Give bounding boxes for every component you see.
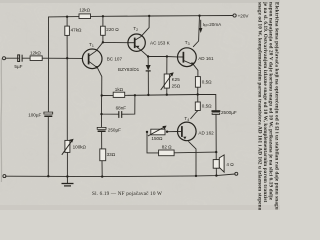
resistor R 220 [101,26,106,35]
terminal input top [3,57,6,60]
svg-text:250µF: 250µF [108,128,121,133]
node 68nF left [100,113,102,115]
wire top rail [49,16,234,17]
svg-text:100µF: 100µF [28,112,41,117]
svg-text:0,5Ω: 0,5Ω [202,104,212,109]
wire output node to 2500uF [198,95,216,111]
transistor T2 AC153K [128,34,145,51]
resistor R 82 [159,150,175,156]
wire T1 emitter lead [89,61,102,95]
margin text rotated [256,1,279,211]
wire R 12k to base node [42,57,82,59]
capacitor C 5uF input [18,55,22,62]
wire T2 emitter node across to T3 base [148,56,183,59]
paper background [0,0,280,210]
svg-text:K25: K25 [172,77,181,82]
svg-text:Sl. 6.19 — NF pojačavač 10 W: Sl. 6.19 — NF pojačavač 10 W [92,191,162,197]
capacitor C 2500uF electrolytic [212,110,221,114]
svg-text:AD 162: AD 162 [198,131,214,136]
node rail-T2 [148,15,150,17]
speaker 4R [213,155,224,172]
wire T3 collector from rail [193,16,199,47]
resistor R 0.5 upper [195,77,200,88]
wire 250uF column down to 33R and bottom rail [101,114,103,127]
node trimmer50 right [166,131,168,133]
wire 82R right to speaker node [174,151,216,154]
wire T2 emitter lead to diode node [135,45,148,56]
svg-text:AC 153 K: AC 153 K [150,41,171,46]
wire 220R column [102,16,104,26]
node speaker rail [215,174,217,176]
svg-text:220 Ω: 220 Ω [106,27,119,32]
wire left column (rail corner down through 100uF to bottom rail) [47,17,49,112]
wire 0.5R-2 to T4 collector [191,111,198,119]
node trimmer50 left [146,131,148,133]
svg-text:5µF: 5µF [14,64,22,69]
wire trimmer 25R column [166,57,168,75]
node trimmer25 bottom [166,94,168,96]
node 33R rail [101,175,103,177]
wire 2500uF to speaker node [215,115,217,153]
wire 47k column: rail to base node [66,17,68,26]
wire speaker node down into speaker [215,152,217,160]
resistor R 0.5 lower [195,102,200,111]
wire trimmer 50R left to 82R loop [147,132,159,153]
node T1 collector [102,41,104,43]
resistor R 1k [113,92,125,97]
svg-text:82 Ω: 82 Ω [162,145,172,150]
svg-text:47kΩ: 47kΩ [71,28,82,33]
node diode bottom [147,94,149,96]
svg-text:+20V: +20V [238,14,250,19]
diode zener BZY83/D1 [146,65,151,71]
wire bottom rail [6,174,235,177]
svg-text:100kΩ: 100kΩ [73,144,87,149]
wire pot 100k to bottom rail [66,152,68,176]
svg-text:IM=20mA: IM=20mA [203,22,223,28]
trimmer 25R [164,74,169,88]
capacitor C 68nF [119,111,122,118]
current arrow IM [199,20,202,33]
svg-text:0,5Ω: 0,5Ω [202,80,212,85]
svg-text:33Ω: 33Ω [107,152,116,157]
node output mid [197,93,199,95]
wire 68nF branch [102,96,119,115]
svg-text:12kΩ: 12kΩ [79,7,90,12]
node T2 emitter diode [147,55,149,57]
svg-text:1kΩ: 1kΩ [115,87,124,92]
node trimmer25 top [166,55,168,57]
node rail-220R [102,15,104,17]
transistor T1 BC107 [82,49,102,69]
node T1 base [66,57,68,59]
node ground rail [66,175,68,177]
transistor T3 AD161 [178,48,197,67]
terminal input bottom [3,175,6,178]
svg-text:2500µF: 2500µF [221,110,237,115]
terminal output bottom right [235,172,238,175]
wire 0.5R-1 to output node [197,87,199,94]
wire T3 emitter lead [184,61,198,77]
wire T2 collector lead to rail [135,16,149,40]
terminal +20V [233,14,236,17]
wire feedback node row y95 [102,94,114,96]
wire output node down to 0.5R-2 [197,95,199,103]
svg-text:150Ω: 150Ω [151,136,163,141]
wire diode leads [147,57,149,66]
ground [62,177,74,186]
resistor R 47k [65,26,70,35]
wire cap to R 12k input [22,57,30,59]
transistor T4 AD162 [178,122,197,141]
svg-text:BC 107: BC 107 [107,57,123,62]
node rail-T3 [198,15,200,17]
svg-text:snage od 10 W, komplementarnim: snage od 10 W, komplementarnim parom tra… [256,2,262,210]
capacitor C 100uF electrolytic [44,112,53,117]
potentiometer 100k [65,140,70,152]
capacitor C 250uF electrolytic [97,127,106,132]
resistor R 12k top rail [79,14,91,19]
resistor R 12k input [30,56,42,61]
node T1 emitter feedback [101,94,103,96]
wire collector node to T2 base [103,41,128,43]
svg-text:25Ω: 25Ω [172,84,181,89]
wire T4 base to trimmer 50R [167,131,177,133]
node rail-47k [66,16,68,18]
node speaker top [215,151,217,153]
svg-text:68nF: 68nF [116,105,127,110]
wire input to cap [6,57,19,59]
svg-text:12kΩ: 12kΩ [30,51,41,56]
wire T1 collector lead [89,42,103,56]
node 1k right [134,94,136,96]
svg-text:BZY83/D1: BZY83/D1 [118,67,140,72]
node T4 rail [195,175,197,177]
wire speaker bottom stub [215,168,217,175]
node 100uF rail [47,175,49,177]
wire base node down to pot 100k [66,58,68,140]
svg-text:4 Ω: 4 Ω [226,162,234,167]
svg-text:AD 161: AD 161 [198,56,214,61]
wire T4 emitter down to bottom rail [189,142,196,176]
trimmer 50R horizontal [151,129,165,135]
scan gutter mark left edge [0,58,3,182]
resistor R 33 [100,149,106,161]
